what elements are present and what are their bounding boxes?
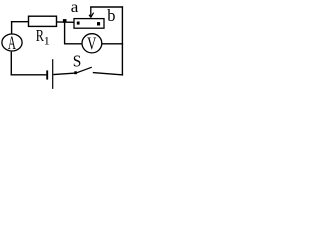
right rail vertical wire: [121, 6, 123, 75]
voltmeter V: [82, 34, 102, 53]
svg-text:V: V: [87, 34, 96, 54]
battery negative short plate: [46, 70, 48, 79]
switch left terminal: [74, 71, 77, 74]
ammeter A: [2, 34, 22, 51]
rheostat left terminal square: [77, 22, 80, 25]
bottom wire battery to switch: [53, 73, 75, 75]
rheostat box: [74, 19, 104, 29]
switch lever: [76, 67, 92, 73]
wire voltmeter to right rail: [102, 43, 123, 45]
junction node dot: [63, 19, 67, 23]
svg-text:A: A: [8, 33, 16, 54]
rheostat right terminal square: [97, 22, 100, 25]
bottom wire left segment: [11, 74, 47, 76]
left rail vertical wire: [10, 52, 12, 76]
resistor R1 box: [29, 16, 57, 26]
wire top-left horizontal: [11, 21, 29, 23]
wire to voltmeter: [64, 43, 82, 45]
battery positive long plate: [52, 59, 54, 89]
slider wiper arrow: [90, 7, 92, 18]
svg-text:b: b: [107, 6, 115, 25]
svg-text:a: a: [71, 0, 79, 16]
svg-text:1: 1: [44, 34, 50, 48]
wire resistor to rheostat: [57, 21, 75, 23]
wire ammeter top vertical: [11, 21, 13, 34]
wire slider top to right rail: [90, 6, 123, 8]
svg-text:S: S: [73, 52, 82, 71]
branch wire vertical to voltmeter: [64, 22, 66, 44]
bottom wire switch to right corner: [93, 73, 123, 75]
